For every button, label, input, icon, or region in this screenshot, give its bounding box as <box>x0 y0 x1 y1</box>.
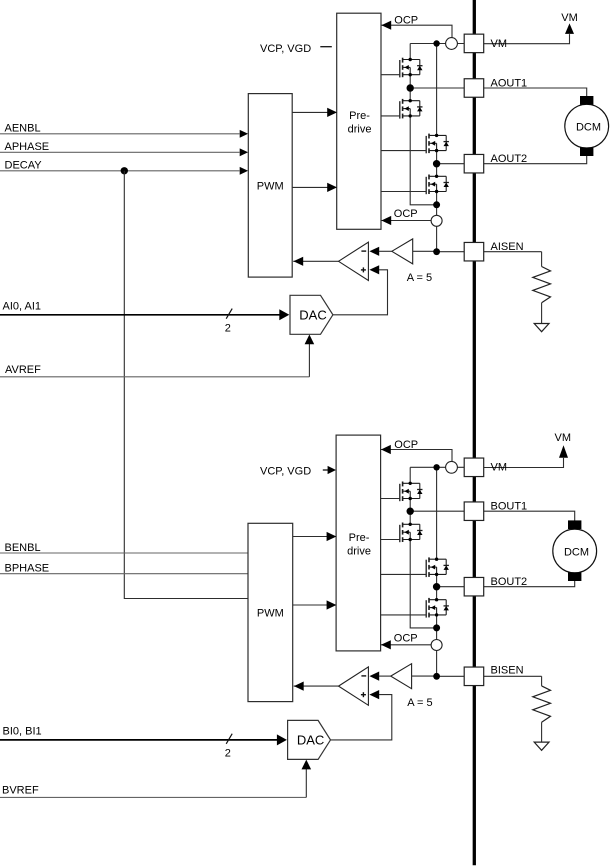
svg-text:VCP, VGD: VCP, VGD <box>260 43 311 55</box>
svg-text:A = 5: A = 5 <box>407 697 432 709</box>
svg-text:DAC: DAC <box>297 733 324 748</box>
svg-text:BOUT2: BOUT2 <box>491 576 528 588</box>
svg-text:2: 2 <box>225 748 231 760</box>
svg-text:BVREF: BVREF <box>2 784 39 796</box>
svg-text:OCP: OCP <box>394 439 418 451</box>
svg-text:OCP: OCP <box>394 15 418 27</box>
svg-text:drive: drive <box>348 124 372 136</box>
svg-text:AOUT1: AOUT1 <box>491 77 528 89</box>
svg-text:VM: VM <box>491 38 508 50</box>
svg-text:AOUT2: AOUT2 <box>491 153 528 165</box>
svg-text:APHASE: APHASE <box>5 141 50 153</box>
svg-text:2: 2 <box>225 323 231 335</box>
svg-text:PWM: PWM <box>257 607 284 619</box>
svg-text:AISEN: AISEN <box>491 241 524 253</box>
svg-text:BENBL: BENBL <box>5 542 41 554</box>
svg-text:OCP: OCP <box>394 633 418 645</box>
svg-text:BOUT1: BOUT1 <box>491 501 528 513</box>
svg-text:AVREF: AVREF <box>5 364 41 376</box>
svg-text:DCM: DCM <box>576 122 601 134</box>
svg-text:AI0, AI1: AI0, AI1 <box>3 300 42 312</box>
svg-text:VM: VM <box>491 462 508 474</box>
svg-text:drive: drive <box>347 545 371 557</box>
svg-text:DECAY: DECAY <box>5 160 43 172</box>
svg-text:VM: VM <box>561 12 578 24</box>
svg-text:BPHASE: BPHASE <box>5 563 50 575</box>
svg-text:Pre-: Pre- <box>349 532 370 544</box>
svg-text:BISEN: BISEN <box>491 665 524 677</box>
svg-text:DCM: DCM <box>564 546 589 558</box>
svg-text:DAC: DAC <box>299 308 326 323</box>
svg-text:VCP, VGD: VCP, VGD <box>260 466 311 478</box>
svg-text:OCP: OCP <box>394 208 418 220</box>
svg-text:BI0, BI1: BI0, BI1 <box>3 726 42 738</box>
svg-text:Pre-: Pre- <box>349 110 370 122</box>
svg-text:VM: VM <box>555 432 572 444</box>
svg-text:AENBL: AENBL <box>5 123 41 135</box>
svg-text:PWM: PWM <box>257 180 284 192</box>
svg-text:A = 5: A = 5 <box>407 272 432 284</box>
